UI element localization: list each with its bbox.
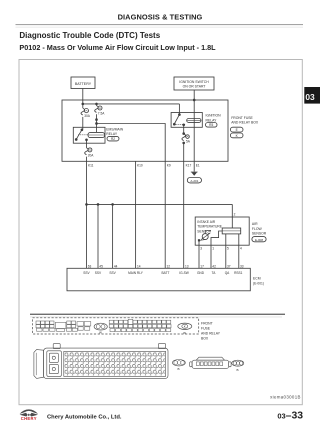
svg-text:3: 3 [200, 246, 202, 250]
air flow sensor box [195, 217, 249, 245]
svg-text:GND: GND [197, 271, 205, 275]
svg-text:14: 14 [137, 264, 141, 268]
connector mid 7-pin [190, 357, 231, 368]
svg-text:EMS/MAIN: EMS/MAIN [106, 127, 123, 131]
svg-text:B: B [237, 368, 239, 372]
ignition switch [174, 77, 214, 90]
sensor internal wires [199, 217, 239, 245]
maf element [222, 228, 241, 234]
svg-text:FLOW: FLOW [252, 227, 263, 231]
svg-text:AND RELAY BOX: AND RELAY BOX [231, 121, 259, 125]
svg-text:W: W [183, 331, 186, 335]
wire E1 arrow [191, 161, 198, 176]
svg-text:ON OR START: ON OR START [183, 85, 206, 89]
svg-text:BATTERY: BATTERY [75, 82, 92, 86]
battery B+ [71, 77, 95, 89]
svg-text:FRONT FUSE: FRONT FUSE [231, 116, 253, 120]
svg-text:AND RELAY: AND RELAY [201, 332, 221, 336]
svg-text:(E-001): (E-001) [253, 281, 264, 285]
wire BATT K9-12 [164, 161, 166, 268]
chapter tab 03 [304, 87, 320, 104]
fuse box cluster right [109, 319, 171, 331]
wire 7.5A branch [96, 104, 98, 106]
svg-text:P0102 - Mass Or Volume Air Flo: P0102 - Mass Or Volume Air Flow Circuit … [19, 43, 216, 52]
svg-text:K10: K10 [137, 164, 143, 168]
svg-text:A-201: A-201 [190, 179, 198, 183]
fuse box cluster left [36, 321, 91, 331]
node SSV junction bus [86, 204, 233, 206]
fuse F 7.5A [95, 106, 106, 116]
svg-text:63: 63 [88, 264, 92, 268]
ECM pin names [83, 271, 242, 275]
svg-text:R5: R5 [209, 123, 213, 127]
wire TA 1-42 [210, 245, 212, 268]
svg-text:IG-SW: IG-SW [179, 271, 189, 275]
svg-text:TEMPERATURE: TEMPERATURE [197, 225, 222, 229]
svg-text:03: 03 [305, 92, 315, 102]
svg-text:5: 5 [227, 246, 229, 250]
svg-text:Diagnostic Trouble Code (DTC): Diagnostic Trouble Code (DTC) Tests [19, 31, 160, 40]
wire RSS1 4-33 [238, 245, 240, 268]
svg-text:37: 37 [227, 264, 231, 268]
svg-text:SENSOR: SENSOR [197, 229, 212, 233]
svg-text:B: B [178, 367, 180, 371]
relay oval K [178, 323, 192, 329]
svg-text:45: 45 [99, 264, 103, 268]
fuse box layout dashed outline [33, 318, 199, 334]
svg-text:17: 17 [200, 264, 204, 268]
chery logo emblem [20, 409, 38, 416]
svg-text:xiema03001B: xiema03001B [270, 395, 301, 400]
wire R2 output [86, 140, 88, 148]
connector oval E [230, 127, 243, 132]
label AIR FLOW SENSOR [252, 222, 267, 235]
fuse F 5A [182, 134, 191, 144]
wire GND 3-17 [198, 245, 200, 268]
relay R2 EMS/MAIN box [73, 127, 105, 143]
relay R2 coil [88, 132, 105, 137]
svg-text:W: W [99, 331, 102, 335]
wire batt feed to K9 [97, 124, 166, 162]
svg-text:13: 13 [185, 264, 189, 268]
wire SSV 63 [86, 204, 88, 268]
svg-text:FRONT: FRONT [201, 321, 213, 325]
connector oval B left [173, 360, 186, 372]
svg-text:03–33: 03–33 [277, 411, 303, 422]
svg-text:K11: K11 [88, 164, 94, 168]
sensor pin numbers 3 1 5 4 [200, 246, 242, 250]
front fuse and relay box outline [62, 100, 228, 161]
section separator [30, 314, 285, 315]
ECM connector pin grid [65, 352, 165, 375]
label IGNITION RELAY [206, 114, 222, 123]
svg-text:BATT: BATT [162, 271, 170, 275]
svg-text:DIAGNOSIS & TESTING: DIAGNOSIS & TESTING [118, 13, 203, 22]
svg-text:SENSOR: SENSOR [252, 232, 267, 236]
svg-text:1: 1 [212, 246, 214, 250]
svg-text:R2: R2 [111, 137, 115, 141]
label EMS/MAIN RELAY [106, 127, 123, 136]
svg-text:12: 12 [167, 264, 171, 268]
node sensor ground [198, 239, 200, 241]
wire QA 5-37 [225, 245, 227, 268]
svg-text:E1: E1 [196, 164, 200, 168]
svg-text:E: E [236, 128, 238, 132]
wire 30A to EMS relay [82, 117, 84, 129]
svg-text:4: 4 [240, 246, 242, 250]
wire ignition switch feed [193, 90, 195, 161]
svg-text:RELAY: RELAY [106, 132, 118, 136]
svg-text:RSS1: RSS1 [234, 271, 243, 275]
fuse F 20A [85, 148, 95, 157]
wire MAIN RLY K10-14 [135, 161, 137, 268]
wire R5 output [183, 125, 185, 135]
svg-text:7.5A: 7.5A [98, 111, 105, 115]
svg-text:MAIN RLY: MAIN RLY [128, 271, 144, 275]
wire IG-SW K17-13 [183, 161, 185, 268]
svg-text:RELAY: RELAY [206, 118, 218, 122]
fuse F 30A [81, 108, 91, 118]
relay R5 switch [173, 114, 186, 126]
label front fuse and relay box [201, 321, 221, 340]
svg-text:SSV: SSV [83, 271, 90, 275]
ECM box E-001 [67, 268, 250, 291]
page content frame [19, 60, 302, 405]
svg-text:42: 42 [212, 264, 216, 268]
svg-text:2: 2 [234, 212, 236, 216]
thermistor symbol [201, 233, 210, 239]
svg-text:44: 44 [114, 264, 118, 268]
svg-text:20A: 20A [88, 153, 95, 157]
svg-text:SSV: SSV [95, 271, 102, 275]
svg-text:K: K [184, 325, 186, 329]
connector oval E-008 [252, 237, 266, 242]
wire 20A to K11 [86, 157, 88, 205]
connector oval B right [232, 360, 244, 372]
label ECM [253, 277, 264, 286]
node battery bus [82, 103, 179, 105]
svg-text:K17: K17 [186, 164, 192, 168]
connector oval A-201 [187, 178, 201, 183]
relay oval left [94, 323, 107, 330]
svg-text:IGNITION SWITCH: IGNITION SWITCH [179, 80, 209, 84]
ECM connector face E-001 [34, 344, 168, 379]
svg-text:FUSE: FUSE [201, 327, 211, 331]
svg-text:INTAKE AIR: INTAKE AIR [197, 220, 216, 224]
wire battery to box [82, 89, 84, 109]
svg-text:AIR: AIR [252, 222, 258, 226]
svg-text:ECM: ECM [253, 277, 261, 281]
wire bus to R5 switch [178, 104, 180, 114]
svg-text:BOX: BOX [201, 336, 209, 340]
wire 5A to K17 [183, 142, 185, 161]
connector oval R2 [107, 136, 119, 141]
connector oval K [230, 133, 243, 138]
relay R5 ignition box [171, 113, 202, 128]
relay R5 coil [187, 119, 201, 123]
svg-text:IGNITION: IGNITION [206, 114, 222, 118]
wire 7.5A to coil [96, 114, 98, 132]
relay R2 switch [75, 129, 88, 141]
wire SSV 44 [112, 204, 114, 268]
svg-text:CHERY: CHERY [21, 416, 37, 421]
label FRONT FUSE AND RELAY BOX [231, 116, 259, 125]
svg-text:K9: K9 [167, 164, 171, 168]
wire sensor supply pin 2 [231, 204, 233, 217]
header rule [16, 24, 304, 25]
svg-text:E-008: E-008 [255, 238, 263, 242]
svg-text:SSV: SSV [109, 271, 116, 275]
wire SSV 45 [97, 204, 99, 268]
connector oval R5 [206, 123, 218, 128]
svg-text:Chery Automobile Co., Ltd.: Chery Automobile Co., Ltd. [47, 414, 122, 420]
ECM pin numbers [88, 264, 244, 268]
svg-text:33: 33 [240, 264, 244, 268]
svg-text:30A: 30A [84, 114, 91, 118]
